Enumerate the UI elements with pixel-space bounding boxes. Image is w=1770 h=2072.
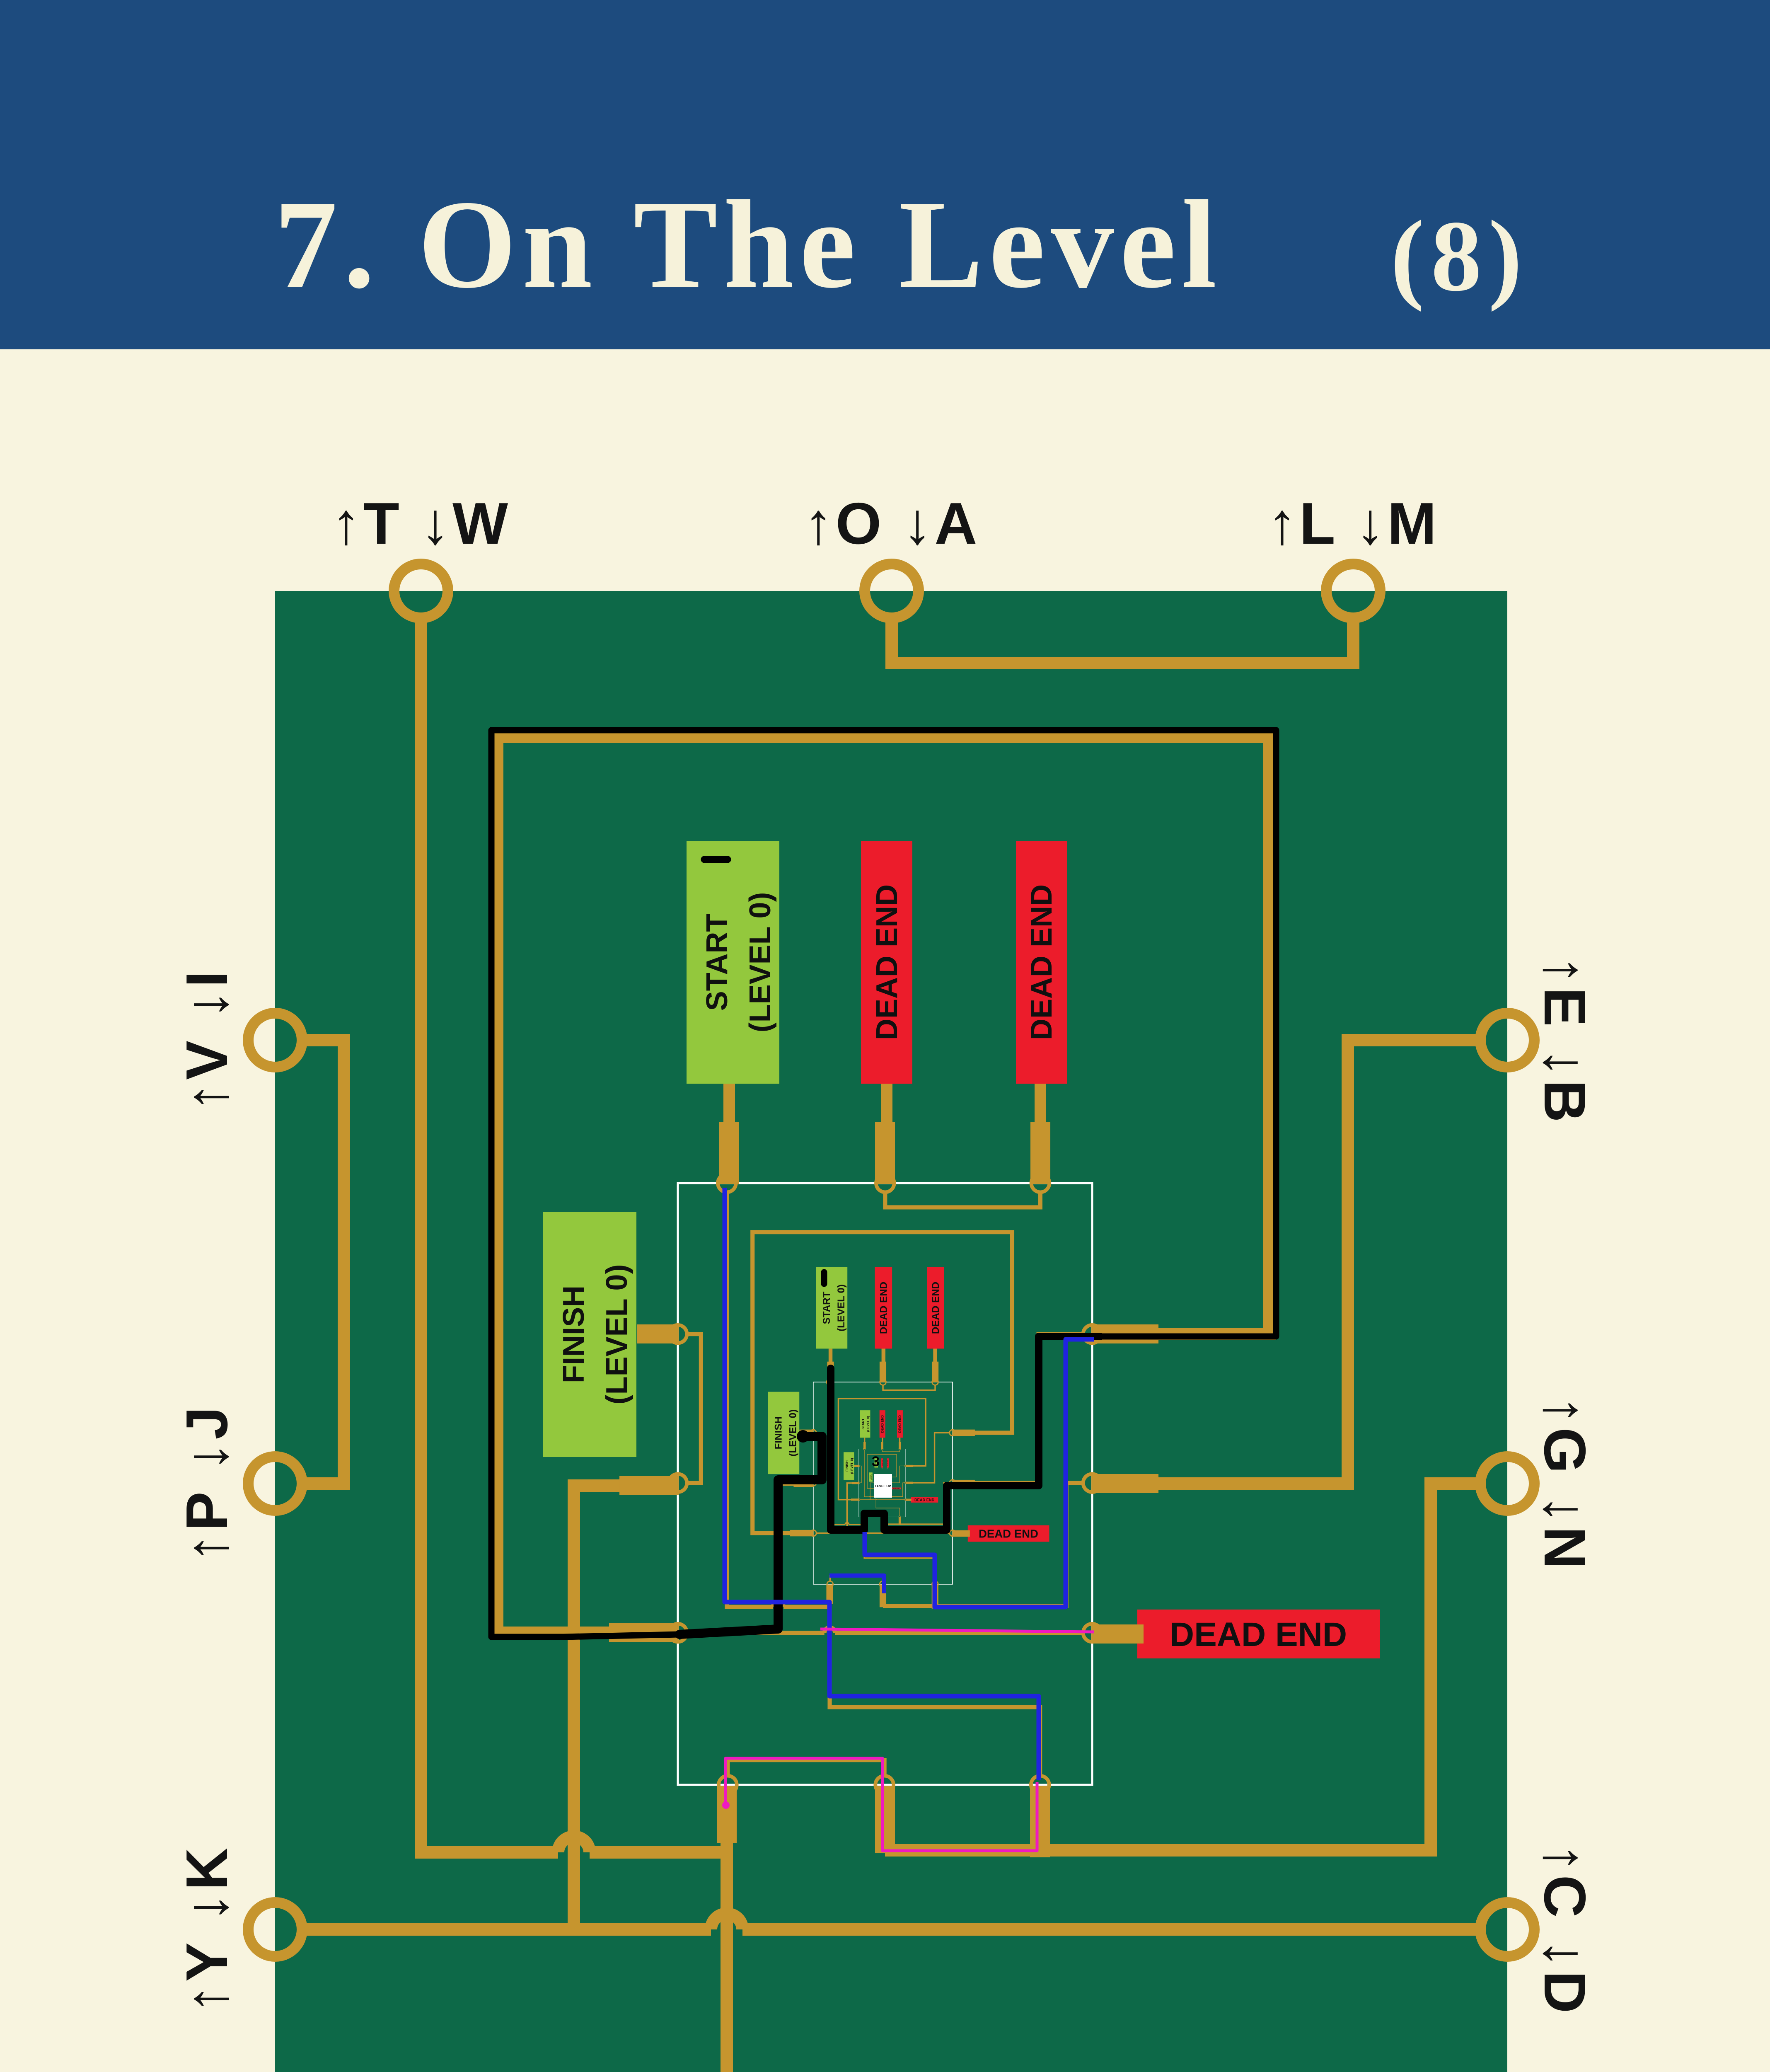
svg-text:↑Y ↓K: ↑Y ↓K — [174, 1845, 240, 2014]
svg-text:↑O ↓A: ↑O ↓A — [804, 491, 979, 557]
svg-text:3: 3 — [872, 1454, 880, 1469]
svg-text:↑V ↓I: ↑V ↓I — [174, 968, 240, 1112]
svg-text:↑P ↓J: ↑P ↓J — [174, 1404, 240, 1563]
svg-text:↑G ↓N: ↑G ↓N — [1532, 1396, 1598, 1571]
svg-text:↑T ↓W: ↑T ↓W — [331, 491, 510, 557]
svg-text:(8): (8) — [1390, 200, 1529, 312]
svg-text:DEAD END: DEAD END — [979, 1527, 1038, 1540]
svg-text:DEAD END: DEAD END — [878, 1282, 890, 1334]
svg-text:DEAD END: DEAD END — [914, 1498, 935, 1502]
svg-text:DEAD END: DEAD END — [870, 884, 904, 1040]
svg-text:DEAD END: DEAD END — [898, 1415, 902, 1433]
svg-text:↑L ↓M: ↑L ↓M — [1267, 491, 1439, 557]
svg-text:DEAD END: DEAD END — [930, 1282, 941, 1334]
svg-text:DEAD END: DEAD END — [1025, 884, 1058, 1040]
svg-text:LEVEL UP: LEVEL UP — [875, 1484, 892, 1488]
svg-text:↑E ↓B: ↑E ↓B — [1532, 956, 1598, 1125]
svg-text:DEAD END: DEAD END — [881, 1415, 885, 1433]
svg-text:DEAD END: DEAD END — [1170, 1616, 1347, 1653]
svg-text:↑C ↓D: ↑C ↓D — [1532, 1843, 1598, 2016]
svg-text:DEAD END: DEAD END — [893, 1488, 900, 1489]
svg-text:7. On The Level: 7. On The Level — [274, 174, 1223, 314]
